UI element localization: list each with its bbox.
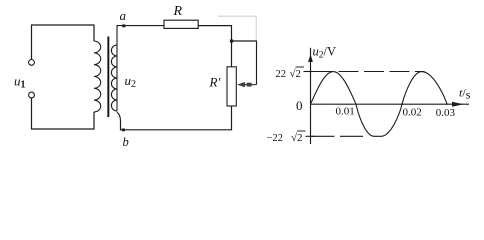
dashed line -amplitude [312, 135, 367, 137]
label -22sqrt2 [267, 131, 306, 144]
wire: rheostat bottom to b [117, 106, 232, 130]
svg-text:R′: R′ [209, 75, 221, 90]
junction dot (wiper tap) [230, 40, 233, 43]
wire: top input lead [32, 25, 95, 59]
label 22sqrt2 [276, 67, 305, 80]
svg-text:√2: √2 [291, 132, 303, 144]
terminal circle (top input) [29, 60, 35, 66]
terminal circle (bottom input) [29, 92, 35, 98]
sine curve u2(t) [311, 72, 448, 137]
resistor R (box) [164, 20, 198, 28]
svg-text:0.02: 0.02 [403, 106, 422, 118]
svg-text:R: R [173, 4, 183, 19]
svg-text:−22: −22 [267, 133, 283, 144]
dashed line +amplitude [313, 71, 425, 73]
node b junction dot [122, 129, 125, 132]
wire: bottom input lead [32, 98, 95, 129]
faint erased wire (gray bracket) [218, 16, 256, 40]
transformer secondary coil [111, 45, 117, 111]
svg-text:22: 22 [276, 69, 287, 80]
graph y-axis with arrow [308, 48, 313, 144]
rheostat R' (box) [227, 67, 236, 106]
wire: R to right corner, down to rheostat [198, 26, 232, 67]
rheostat wiper arrow [237, 82, 257, 87]
wire: secondary top lead and coil spine (a to R) [117, 26, 165, 112]
node a junction dot [122, 24, 125, 27]
wire: wiper tap jog [232, 41, 257, 85]
svg-text:u2/V: u2/V [313, 45, 337, 61]
svg-text:b: b [123, 135, 129, 149]
graph x-axis with arrow [311, 102, 470, 107]
svg-text:t/s: t/s [459, 86, 471, 102]
tick +22sqrt2 [304, 71, 315, 73]
tick -22sqrt2 [306, 135, 315, 137]
transformer core [107, 37, 109, 118]
svg-text:0.03: 0.03 [436, 107, 456, 119]
svg-text:a: a [120, 8, 127, 23]
svg-text:0: 0 [296, 98, 303, 113]
svg-text:√2: √2 [290, 68, 302, 80]
svg-text:0.01: 0.01 [336, 105, 355, 117]
transformer primary coil [94, 41, 101, 112]
